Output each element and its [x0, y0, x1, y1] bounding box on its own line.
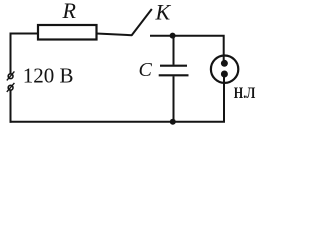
svg-text:K: K [155, 0, 172, 25]
wire switch to top-right corner and down to lamp [150, 36, 224, 60]
terminal upper (source clip) [7, 71, 15, 80]
resistor R [38, 25, 97, 40]
wire left vertical lower segment [10, 90, 12, 123]
lamp electrode lower dot [221, 71, 228, 78]
terminal lower (source clip) [7, 83, 15, 92]
wire lamp bottom lead to bottom-right corner [223, 75, 225, 122]
node junction top (capacitor tap) [170, 33, 176, 39]
wire capacitor top lead [173, 36, 175, 65]
wire top-left: left vertical upper segment and top-left horizontal [10, 34, 39, 75]
node junction bottom [170, 119, 176, 125]
wire bottom horizontal [10, 121, 226, 123]
capacitor C plates [159, 66, 189, 76]
svg-text:C: C [139, 59, 153, 81]
switch K blade [132, 9, 152, 36]
svg-text:R: R [62, 0, 77, 23]
svg-text:120 В: 120 В [23, 64, 74, 88]
lamp HL neon: envelope circle [211, 55, 238, 82]
wire capacitor bottom lead [173, 76, 175, 121]
wire resistor to switch [97, 34, 133, 36]
svg-text:Н.Л: Н.Л [234, 85, 256, 102]
lamp electrode upper dot [221, 60, 228, 67]
